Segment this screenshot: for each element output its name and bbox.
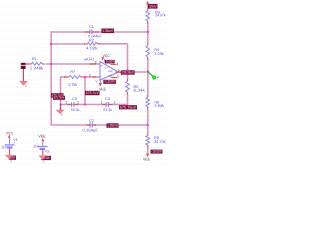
V1 top lead — [9, 138, 11, 144]
node box V+ pin — [105, 60, 115, 64]
svg-text:15V: 15V — [33, 144, 39, 148]
VEE arrow rail bottom — [146, 154, 149, 158]
V1 bottom lead — [9, 149, 11, 156]
resistor R4 — [146, 46, 150, 57]
svg-text:0: 0 — [25, 84, 27, 88]
lead R2 right — [97, 43, 100, 45]
lead R4 bottom — [147, 57, 149, 60]
lead R8 top — [147, 133, 149, 136]
lead C1 right — [93, 31, 99, 33]
pin 5 lead — [111, 77, 117, 79]
pin 2 lead red — [92, 76, 96, 78]
junction right rail / top row — [147, 31, 149, 33]
svg-text:V2: V2 — [45, 149, 49, 153]
lead R4 top — [147, 43, 149, 46]
svg-text:675.7uV: 675.7uV — [86, 91, 99, 95]
svg-text:56.3n: 56.3n — [71, 108, 80, 112]
lead C2 left — [86, 124, 89, 126]
svg-text:2.05k: 2.05k — [154, 51, 164, 56]
svg-text:R2: R2 — [89, 38, 94, 42]
wire bottom row — [51, 124, 149, 126]
node box top row — [101, 29, 114, 34]
resistor R3 — [146, 11, 150, 21]
junction input node / R2 row — [50, 43, 52, 45]
node box bottom row — [107, 123, 119, 127]
node box VEE rail — [151, 150, 163, 154]
svg-text:VCC: VCC — [6, 131, 13, 135]
resistor R8 — [146, 136, 150, 145]
svg-text:C3: C3 — [72, 97, 77, 101]
wire R7 row — [61, 76, 67, 78]
svg-text:6.34k: 6.34k — [134, 88, 145, 93]
lead R8 bottom — [147, 145, 149, 147]
ground V1 — [5, 155, 14, 160]
svg-text:-15.00V: -15.00V — [151, 150, 162, 154]
svg-text:1.248k: 1.248k — [30, 65, 44, 70]
wire pin2 branch vertical — [84, 77, 86, 105]
svg-text:0.044uF: 0.044uF — [88, 33, 102, 38]
svg-text:675.75uV: 675.75uV — [54, 96, 65, 100]
node box pin2 node — [85, 91, 100, 95]
lead C1 left — [85, 31, 89, 33]
lead C4 left — [102, 104, 106, 106]
svg-text:1: 1 — [101, 101, 103, 105]
lead R5 top — [127, 79, 129, 81]
resistor R7 — [69, 76, 80, 79]
resistor R2 — [88, 42, 98, 45]
wire R2 row — [51, 43, 85, 45]
svg-text:675.75uV: 675.75uV — [120, 105, 137, 109]
svg-text:15V: 15V — [1, 145, 7, 149]
svg-text:61.3n: 61.3n — [103, 108, 112, 112]
lead R2 left — [84, 43, 88, 45]
svg-text:0.164uF: 0.164uF — [83, 127, 99, 132]
svg-text:uA741: uA741 — [84, 57, 95, 62]
wire R2-output vertical — [127, 44, 129, 79]
V2 battery plates — [38, 146, 48, 147]
svg-text:R1: R1 — [32, 57, 37, 61]
resistor R1 — [32, 62, 43, 65]
svg-text:15V: 15V — [149, 5, 158, 9]
VCC arrow — [101, 57, 104, 61]
pin 1 lead — [110, 63, 116, 65]
wire mid cap row — [61, 104, 128, 106]
junction output node / feedback — [126, 69, 128, 71]
node box R7 left B — [53, 96, 65, 100]
junction right rail / bottom row — [147, 124, 149, 126]
svg-text:2: 2 — [77, 101, 79, 105]
VCC arrow rail top — [146, 1, 149, 5]
svg-text:2: 2 — [89, 73, 91, 77]
junction mid cap row — [84, 103, 86, 105]
lead source-R1 — [26, 63, 32, 65]
svg-text:3: 3 — [95, 61, 97, 65]
svg-text:V-: V- — [95, 80, 98, 84]
capacitor C1 — [89, 29, 91, 34]
svg-text:15.00V: 15.00V — [106, 59, 114, 63]
svg-text:os1: os1 — [108, 73, 113, 77]
wire output row — [124, 71, 148, 73]
lead R6 top — [147, 95, 149, 98]
lead C4 right — [109, 104, 113, 106]
V+ pin lead — [104, 59, 106, 63]
svg-text:2: 2 — [114, 101, 116, 105]
svg-text:VEE: VEE — [38, 134, 45, 138]
svg-text:2.94k: 2.94k — [154, 103, 164, 108]
junction inverting input node — [84, 76, 86, 78]
ground V2 — [38, 155, 46, 159]
svg-text:1.35mV: 1.35mV — [102, 29, 114, 33]
node box output — [121, 70, 135, 74]
capacitor C4 — [105, 102, 107, 107]
svg-text:5: 5 — [117, 75, 119, 79]
ground source — [19, 81, 28, 86]
node box R7 left A — [51, 93, 64, 98]
resistor R6 — [146, 97, 150, 106]
lead C2 right — [93, 124, 96, 126]
wire right rail — [147, 3, 149, 9]
svg-text:1: 1 — [65, 101, 67, 105]
node box R5 bottom — [119, 105, 137, 109]
node box V2 — [41, 156, 51, 160]
V2 bottom lead — [42, 150, 44, 155]
resistor R5 — [126, 81, 130, 92]
node box VCC rail top — [148, 4, 158, 9]
V1 battery plates — [5, 144, 15, 145]
lead R7 right — [81, 76, 85, 78]
svg-text:1: 1 — [116, 62, 118, 66]
svg-text:-1.35mV: -1.35mV — [104, 80, 116, 84]
svg-text:VEE: VEE — [99, 88, 106, 92]
capacitor C2 — [89, 122, 91, 127]
lead R3 bottom — [147, 21, 149, 24]
svg-text:4.02k: 4.02k — [86, 45, 98, 50]
source stem — [22, 69, 24, 81]
op-amp U1 triangle — [100, 62, 119, 81]
lead R5 bottom — [127, 92, 129, 95]
svg-text:6.76k: 6.76k — [69, 82, 78, 87]
svg-text:0: 0 — [43, 160, 45, 164]
pin 6 output lead — [116, 71, 125, 73]
svg-text:24.70k: 24.70k — [154, 139, 166, 144]
wire R1/pin3 row — [46, 63, 101, 65]
wire top row — [51, 31, 148, 33]
V2 top lead — [42, 142, 44, 146]
svg-text:VEE: VEE — [143, 158, 150, 162]
lead C3 right — [75, 104, 79, 106]
junction right rail / output row — [147, 70, 149, 72]
V1 arrow — [8, 134, 10, 138]
VEE arrow op-amp — [99, 83, 102, 87]
pin 3 lead red — [90, 63, 97, 65]
V2 arrow — [42, 138, 44, 142]
lead C3 left — [67, 104, 71, 106]
svg-text:24.07k: 24.07k — [155, 12, 165, 17]
svg-text:6: 6 — [118, 69, 120, 73]
node box V1 — [9, 156, 16, 160]
lead R7 left — [64, 76, 69, 78]
capacitor C3 — [71, 102, 73, 107]
svg-text:C1: C1 — [89, 25, 94, 29]
svg-text:C4: C4 — [105, 97, 110, 101]
lead R3 top — [147, 8, 149, 10]
V- pin lead — [100, 80, 102, 84]
wire R7 corner vertical — [60, 76, 62, 104]
ground mid — [56, 110, 65, 115]
lead R1 right — [42, 63, 45, 65]
svg-text:0: 0 — [61, 113, 63, 117]
svg-text:+: + — [14, 141, 16, 145]
wire left rail — [50, 31, 52, 125]
svg-text:1.35mV: 1.35mV — [107, 124, 118, 128]
svg-text:R7: R7 — [70, 70, 75, 74]
junction input node / R1 row — [50, 63, 52, 65]
lead R6 bottom — [147, 107, 149, 110]
source VG1 — [21, 63, 26, 65]
junction ground node mid row — [60, 103, 62, 105]
node box pin5 — [103, 80, 116, 84]
svg-text:os2: os2 — [108, 69, 113, 73]
probe output — [148, 72, 153, 77]
svg-text:C2: C2 — [89, 119, 94, 123]
svg-text:0: 0 — [10, 160, 12, 164]
